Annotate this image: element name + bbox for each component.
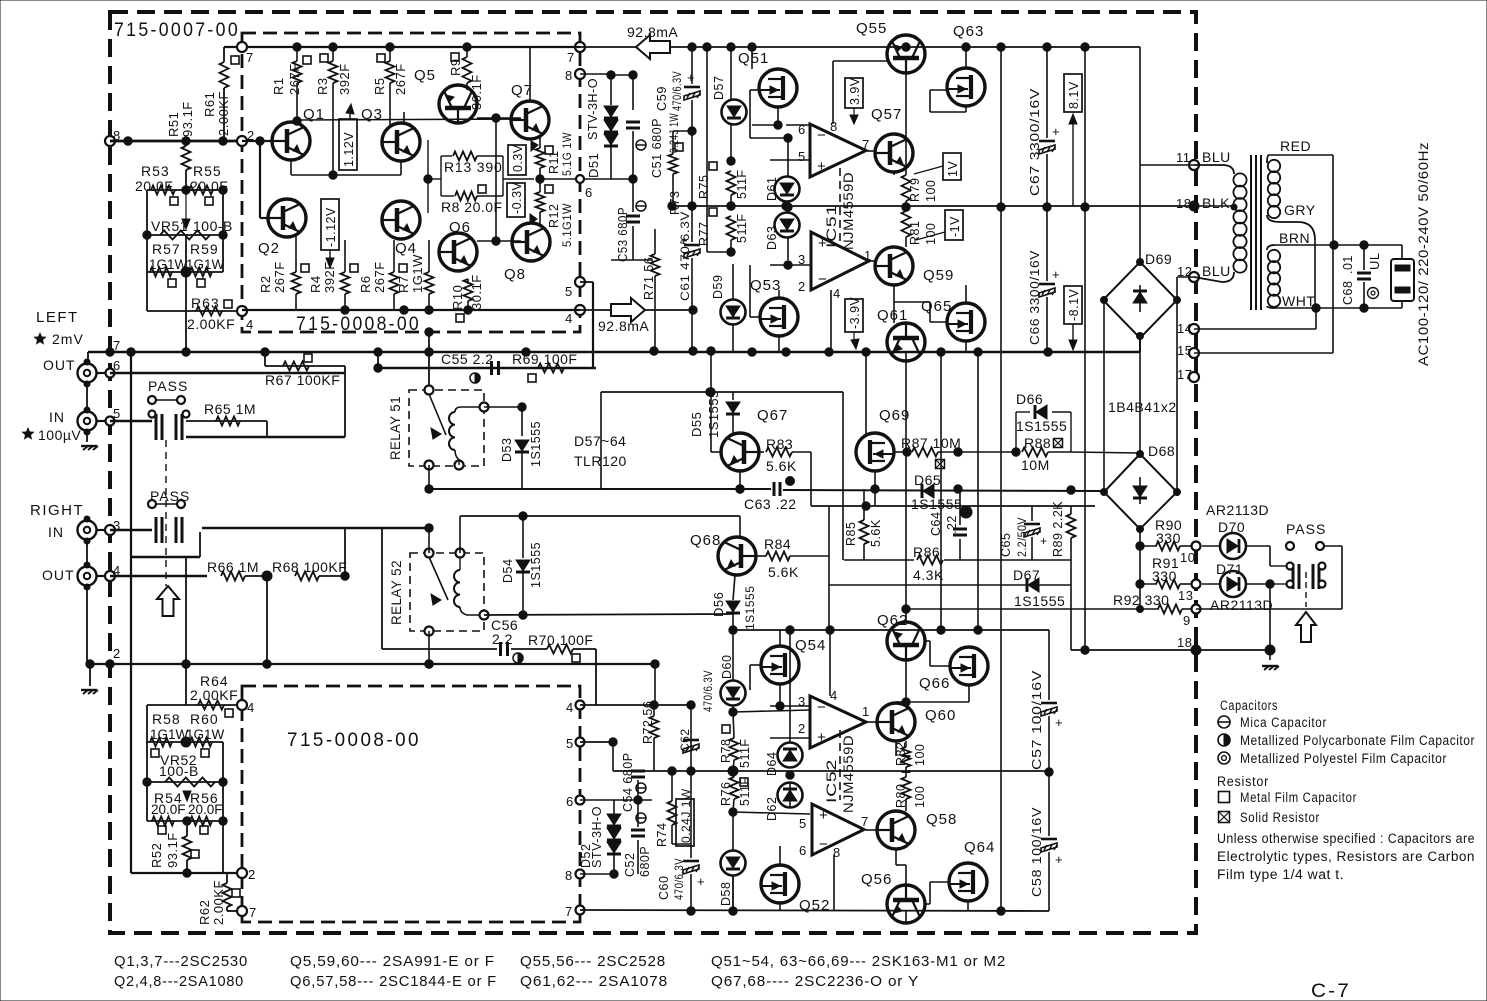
svg-text:IC52: IC52 — [823, 759, 839, 803]
svg-text:+: + — [1040, 534, 1047, 548]
svg-text:R57: R57 — [152, 241, 181, 257]
svg-text:NJM4559D: NJM4559D — [840, 172, 856, 250]
svg-text:715-0007-00: 715-0007-00 — [114, 20, 240, 41]
svg-text:6: 6 — [113, 358, 121, 373]
svg-text:Q66: Q66 — [919, 675, 950, 692]
svg-text:5: 5 — [566, 736, 574, 751]
svg-text:680P: 680P — [638, 846, 652, 877]
svg-text:4: 4 — [247, 700, 255, 715]
svg-text:Q61,62--- 2SA1078: Q61,62--- 2SA1078 — [520, 973, 668, 990]
svg-text:D52: D52 — [579, 844, 593, 868]
svg-text:Q8: Q8 — [504, 266, 526, 283]
svg-text:8: 8 — [830, 119, 838, 134]
svg-text:+: + — [697, 874, 705, 889]
svg-text:392F: 392F — [337, 63, 352, 95]
svg-text:D53: D53 — [500, 438, 514, 462]
svg-text:C57 100/16V: C57 100/16V — [1030, 670, 1044, 770]
svg-text:D51: D51 — [586, 153, 601, 178]
svg-text:100: 100 — [924, 180, 938, 202]
svg-text:Q52: Q52 — [799, 897, 830, 914]
svg-text:D58: D58 — [719, 882, 733, 906]
svg-text:1V: 1V — [946, 161, 960, 177]
svg-text:AR2113D: AR2113D — [1210, 597, 1273, 613]
svg-text:R66 1M: R66 1M — [207, 559, 259, 575]
svg-text:C61 470/6.3V: C61 470/6.3V — [680, 211, 692, 301]
svg-text:Unless otherwise specified :: Unless otherwise specified : Capacitors … — [1217, 831, 1475, 846]
svg-text:PASS: PASS — [148, 378, 188, 394]
svg-text:1S1555: 1S1555 — [743, 586, 757, 630]
svg-text:D64: D64 — [765, 752, 779, 776]
svg-text:+: + — [817, 158, 826, 175]
svg-text:100µV: 100µV — [38, 427, 81, 443]
svg-text:Mica Capacitor: Mica Capacitor — [1240, 715, 1327, 730]
svg-text:R77: R77 — [697, 222, 711, 246]
svg-text:7: 7 — [861, 814, 869, 829]
svg-text:93.1F: 93.1F — [165, 832, 180, 868]
svg-text:C68: C68 — [1341, 281, 1355, 305]
svg-text:R65 1M: R65 1M — [204, 401, 256, 417]
svg-text:Q53: Q53 — [750, 277, 781, 294]
svg-text:AC100-120/ 220-240V 50/60Hz: AC100-120/ 220-240V 50/60Hz — [1415, 142, 1431, 366]
svg-text:5: 5 — [799, 816, 807, 831]
svg-text:5: 5 — [565, 284, 573, 299]
svg-text:100: 100 — [924, 223, 938, 245]
svg-text:715-0008-00: 715-0008-00 — [296, 314, 421, 335]
svg-text:C51 680P: C51 680P — [650, 118, 664, 178]
svg-text:STV-3H-O: STV-3H-O — [585, 78, 600, 140]
svg-text:7: 7 — [565, 904, 573, 919]
svg-text:R5: R5 — [372, 77, 387, 95]
svg-text:93.1F: 93.1F — [180, 101, 195, 137]
svg-text:92.8mA: 92.8mA — [627, 24, 678, 40]
svg-text:100: 100 — [913, 744, 927, 766]
svg-text:6: 6 — [585, 185, 593, 200]
svg-text:Electrolytic types, Resist: Electrolytic types, Resistors are Carbon — [1217, 849, 1475, 864]
svg-text:Resistor: Resistor — [1217, 774, 1269, 789]
svg-text:5: 5 — [113, 406, 121, 421]
svg-text:D66: D66 — [1016, 391, 1043, 407]
svg-text:R59: R59 — [190, 241, 219, 257]
svg-text:Q51: Q51 — [738, 50, 769, 67]
svg-text:1S1555: 1S1555 — [911, 496, 962, 512]
svg-text:D57: D57 — [712, 76, 726, 100]
svg-text:Q1: Q1 — [303, 106, 325, 123]
svg-text:R52: R52 — [149, 843, 164, 868]
svg-text:D61: D61 — [765, 177, 779, 201]
svg-text:8: 8 — [833, 845, 841, 860]
svg-text:715-0008-00: 715-0008-00 — [287, 730, 421, 751]
svg-text:OUT: OUT — [43, 357, 76, 373]
svg-text:C54 680P: C54 680P — [621, 752, 635, 812]
svg-text:D71: D71 — [1216, 561, 1243, 577]
svg-text:511F: 511F — [738, 738, 752, 768]
svg-text:Q55,56--- 2SC2528: Q55,56--- 2SC2528 — [520, 953, 666, 970]
svg-text:D68: D68 — [1148, 443, 1175, 459]
svg-text:2: 2 — [798, 721, 806, 736]
svg-text:4: 4 — [566, 700, 574, 715]
svg-text:511F: 511F — [735, 169, 749, 199]
svg-text:BLU: BLU — [1202, 149, 1231, 165]
svg-text:IN: IN — [48, 524, 64, 540]
svg-text:OUT: OUT — [42, 567, 75, 583]
svg-text:Q2: Q2 — [258, 240, 280, 257]
svg-text:2: 2 — [798, 279, 806, 294]
svg-text:1G1W: 1G1W — [410, 254, 425, 293]
svg-text:1.12V: 1.12V — [342, 132, 356, 167]
svg-text:100: 100 — [913, 786, 927, 808]
svg-text:C62: C62 — [678, 728, 692, 752]
svg-text:Q59: Q59 — [923, 267, 954, 284]
svg-text:Metal Film Capacitor: Metal Film Capacitor — [1240, 790, 1357, 805]
svg-text:267F: 267F — [272, 261, 287, 293]
svg-text:+: + — [818, 235, 827, 252]
svg-text:R70 100F: R70 100F — [528, 632, 593, 648]
svg-text:R58: R58 — [152, 711, 181, 727]
svg-text:1S1555: 1S1555 — [1016, 418, 1067, 434]
svg-text:R79: R79 — [908, 178, 922, 202]
svg-text:R2: R2 — [258, 275, 273, 293]
svg-text:470/6.3V: 470/6.3V — [701, 670, 715, 712]
svg-text:−: − — [818, 271, 827, 288]
svg-text:9: 9 — [1183, 613, 1191, 628]
svg-text:Q54: Q54 — [795, 637, 826, 654]
svg-text:R7: R7 — [396, 275, 411, 293]
svg-text:5.6K: 5.6K — [768, 564, 799, 580]
svg-text:C63 .22: C63 .22 — [744, 496, 797, 512]
svg-text:R1: R1 — [271, 77, 286, 95]
svg-text:+: + — [1052, 124, 1060, 139]
svg-text:7: 7 — [249, 905, 257, 920]
svg-text:Q63: Q63 — [953, 23, 984, 40]
svg-text:NJM4559D: NJM4559D — [840, 735, 856, 813]
svg-text:267F: 267F — [393, 63, 408, 95]
svg-text:5: 5 — [798, 149, 806, 164]
svg-text:2: 2 — [113, 646, 121, 661]
svg-text:Solid Resistor: Solid Resistor — [1240, 810, 1320, 825]
svg-text:GRY: GRY — [1284, 202, 1316, 218]
svg-text:+: + — [1052, 267, 1060, 282]
svg-text:2mV: 2mV — [52, 331, 84, 347]
svg-text:AR2113D: AR2113D — [1206, 502, 1269, 518]
svg-text:Metallized Polycarbonate Fil: Metallized Polycarbonate Film Capacitor — [1240, 733, 1475, 748]
svg-text:-0.3V: -0.3V — [510, 181, 524, 214]
svg-text:PASS: PASS — [1286, 521, 1326, 537]
svg-text:Q55: Q55 — [856, 20, 887, 37]
svg-text:Q58: Q58 — [926, 811, 957, 828]
svg-text:R61: R61 — [202, 92, 217, 117]
svg-text:R55: R55 — [193, 163, 222, 179]
svg-text:R89 2.2K: R89 2.2K — [1051, 501, 1065, 557]
svg-text:+: + — [687, 70, 695, 85]
svg-text:10: 10 — [1180, 550, 1195, 565]
svg-text:92.8mA: 92.8mA — [598, 318, 649, 334]
svg-text:D54: D54 — [501, 559, 515, 583]
svg-text:2.00KF: 2.00KF — [187, 316, 235, 332]
svg-text:2.00KF: 2.00KF — [190, 687, 238, 703]
svg-text:6: 6 — [566, 794, 574, 809]
svg-text:1: 1 — [862, 704, 870, 719]
svg-text:BLK: BLK — [1202, 195, 1230, 211]
svg-text:Q51~54, 63~66,69--- 2SK163-M1: Q51~54, 63~66,69--- 2SK163-M1 or M2 — [711, 953, 1006, 970]
svg-text:2.2: 2.2 — [492, 631, 513, 647]
svg-text:Q6,57,58--- 2SC1844-E or F: Q6,57,58--- 2SC1844-E or F — [290, 973, 497, 990]
svg-text:IN: IN — [49, 409, 65, 425]
svg-text:Metallized Polyestel Film C: Metallized Polyestel Film Capacitor — [1240, 751, 1447, 766]
svg-text:100-B: 100-B — [159, 763, 199, 779]
svg-text:R6: R6 — [358, 275, 373, 293]
svg-text:1S1555: 1S1555 — [529, 542, 543, 588]
svg-text:3.9V: 3.9V — [848, 77, 862, 105]
svg-text:.01: .01 — [1341, 255, 1355, 274]
svg-text:Capacitors: Capacitors — [1220, 698, 1278, 713]
svg-text:C65: C65 — [999, 533, 1013, 557]
svg-text:Q56: Q56 — [861, 871, 892, 888]
svg-text:RED: RED — [1280, 138, 1311, 154]
svg-text:−: − — [817, 699, 826, 716]
svg-text:4.3K: 4.3K — [913, 567, 944, 583]
svg-text:4: 4 — [830, 688, 838, 703]
svg-text:R3: R3 — [315, 77, 330, 95]
svg-text:10M: 10M — [1021, 457, 1050, 473]
svg-text:C52: C52 — [623, 853, 637, 877]
svg-text:R60: R60 — [190, 711, 219, 727]
svg-text:7: 7 — [246, 50, 254, 65]
svg-text:4: 4 — [246, 317, 254, 332]
svg-text:5.1G1W: 5.1G1W — [560, 203, 574, 247]
svg-text:Q5: Q5 — [414, 67, 436, 84]
svg-text:C59: C59 — [655, 86, 669, 111]
svg-text:1S1555: 1S1555 — [1014, 593, 1065, 609]
svg-text:267F: 267F — [372, 261, 387, 293]
svg-text:5.1G 1W: 5.1G 1W — [560, 132, 574, 176]
svg-text:LEFT: LEFT — [36, 309, 79, 326]
svg-text:R62: R62 — [197, 900, 212, 925]
svg-text:R88: R88 — [1024, 435, 1051, 451]
svg-text:R67 100KF: R67 100KF — [265, 372, 340, 388]
svg-text:1B4B41x2: 1B4B41x2 — [1108, 399, 1177, 415]
svg-text:Q5,59,60--- 2SA991-E or F: Q5,59,60--- 2SA991-E or F — [290, 953, 495, 970]
svg-text:R81: R81 — [908, 221, 922, 245]
svg-text:-3.9V: -3.9V — [848, 296, 862, 329]
svg-text:4: 4 — [833, 286, 841, 301]
svg-text:Q68: Q68 — [690, 532, 721, 549]
svg-text:Q1,3,7---2SC2530: Q1,3,7---2SC2530 — [114, 953, 248, 970]
svg-text:+: + — [1055, 852, 1063, 867]
svg-text:Q67: Q67 — [757, 407, 788, 424]
svg-text:Q64: Q64 — [964, 839, 995, 856]
svg-text:−: − — [817, 127, 826, 144]
svg-text:D59: D59 — [711, 275, 725, 299]
svg-text:D62: D62 — [765, 797, 779, 821]
svg-text:D55: D55 — [689, 412, 704, 437]
svg-text:Film type 1/4 wat t.: Film type 1/4 wat t. — [1217, 867, 1344, 882]
svg-text:R53: R53 — [141, 163, 170, 179]
svg-text:C60: C60 — [657, 876, 671, 900]
svg-text:RIGHT: RIGHT — [30, 502, 84, 519]
svg-text:+: + — [1055, 715, 1063, 730]
svg-text:511F: 511F — [735, 213, 749, 243]
svg-text:R11: R11 — [547, 150, 561, 174]
svg-text:+: + — [819, 807, 828, 824]
svg-text:D63: D63 — [765, 226, 779, 250]
svg-text:C53 680P: C53 680P — [616, 207, 630, 262]
svg-text:R69 100F: R69 100F — [512, 351, 577, 367]
svg-text:Q57: Q57 — [871, 106, 902, 123]
svg-text:11: 11 — [1176, 150, 1191, 165]
svg-text:4: 4 — [565, 311, 573, 326]
svg-text:D60: D60 — [720, 655, 734, 679]
svg-text:7: 7 — [567, 50, 575, 65]
svg-text:-1.12V: -1.12V — [324, 207, 338, 247]
svg-text:RELAY 51: RELAY 51 — [388, 396, 403, 460]
svg-text:UL: UL — [1367, 252, 1382, 270]
svg-text:Q67,68---- 2SC2236-O or Y: Q67,68---- 2SC2236-O or Y — [711, 973, 919, 990]
svg-text:13: 13 — [1178, 588, 1193, 603]
svg-text:8: 8 — [565, 68, 573, 83]
svg-text:+: + — [817, 729, 826, 746]
svg-text:-8.1V: -8.1V — [1067, 288, 1081, 321]
svg-text:18: 18 — [1176, 196, 1191, 211]
svg-text:2: 2 — [248, 867, 256, 882]
svg-text:C-7: C-7 — [1311, 981, 1351, 1001]
svg-text:R75: R75 — [697, 175, 711, 199]
svg-text:R74: R74 — [655, 823, 669, 847]
svg-text:.22: .22 — [945, 515, 959, 534]
svg-text:20.0F: 20.0F — [188, 802, 223, 817]
svg-text:R12: R12 — [547, 204, 561, 228]
svg-text:392F: 392F — [322, 261, 337, 293]
svg-text:−: − — [819, 836, 828, 853]
svg-text:7: 7 — [862, 137, 870, 152]
svg-text:R8 20.0F: R8 20.0F — [441, 199, 503, 215]
svg-text:D65: D65 — [914, 472, 941, 488]
svg-text:-1V: -1V — [948, 216, 962, 237]
svg-text:R4: R4 — [308, 275, 323, 293]
svg-text:D69: D69 — [1145, 251, 1172, 267]
svg-text:6: 6 — [799, 843, 807, 858]
svg-text:C55 2.2: C55 2.2 — [441, 351, 494, 367]
svg-text:R13 390: R13 390 — [444, 159, 503, 175]
svg-text:1S1555: 1S1555 — [529, 421, 543, 467]
svg-text:8: 8 — [565, 868, 573, 883]
svg-text:1S1555: 1S1555 — [706, 390, 721, 438]
svg-text:R78: R78 — [719, 739, 733, 763]
svg-text:Q60: Q60 — [925, 707, 956, 724]
svg-text:RELAY 52: RELAY 52 — [389, 560, 404, 625]
svg-text:BRN: BRN — [1279, 230, 1310, 246]
svg-text:WHT: WHT — [1282, 293, 1315, 309]
svg-text:R51: R51 — [166, 112, 181, 137]
svg-text:470/6.3V: 470/6.3V — [672, 858, 686, 900]
svg-text:8.1V: 8.1V — [1067, 81, 1081, 109]
svg-text:5.6K: 5.6K — [766, 458, 797, 474]
svg-text:BLU: BLU — [1202, 263, 1231, 279]
svg-text:R85: R85 — [844, 522, 858, 546]
svg-text:470/6.3V: 470/6.3V — [670, 71, 684, 111]
svg-text:5.6K: 5.6K — [869, 519, 883, 547]
svg-text:Q3: Q3 — [361, 106, 383, 123]
svg-text:R68 100KF: R68 100KF — [272, 559, 347, 575]
svg-text:0.3V: 0.3V — [511, 144, 525, 172]
svg-text:Q2,4,8---2SA1080: Q2,4,8---2SA1080 — [114, 973, 244, 990]
svg-text:18: 18 — [1177, 635, 1192, 650]
